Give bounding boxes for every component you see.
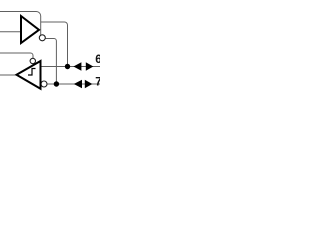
svg-text:7: 7 bbox=[95, 76, 100, 88]
svg-text:6: 6 bbox=[95, 54, 100, 66]
